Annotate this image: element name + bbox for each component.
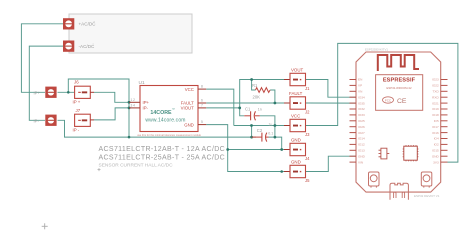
wire VCC row to VCC box J3 <box>234 125 290 127</box>
svg-text:GND: GND <box>432 154 440 158</box>
wire FAULT pin to FAULT box J2 <box>206 102 290 104</box>
svg-text:ESP32DEVKITV1: ESP32DEVKITV1 <box>365 47 388 51</box>
svg-text:J6: J6 <box>74 80 79 85</box>
wire C2 right lead down to GND row <box>269 137 282 149</box>
jack square IP- <box>45 115 56 126</box>
svg-text:www.14core.com: www.14core.com <box>145 117 185 123</box>
svg-text:ACS711ELCTR-12AB-T - 12A AC/DC: ACS711ELCTR-12AB-T - 12A AC/DC <box>99 146 226 153</box>
shield box <box>376 75 423 111</box>
wire VOUT box J1 to ESP32 pin IO34 <box>306 80 356 98</box>
wire IP+ branch up over J6 to U1 vertical <box>68 79 129 137</box>
svg-text:U1: U1 <box>139 80 145 86</box>
svg-text:IP-: IP- <box>143 106 149 111</box>
button BOOT <box>421 172 432 188</box>
svg-text:C2: C2 <box>257 128 263 133</box>
svg-text:ACS711ELCTR-25AB-T - 25A AC/DC: ACS711ELCTR-25AB-T - 25A AC/DC <box>99 154 226 161</box>
pin VCC stub <box>198 88 206 90</box>
ESP32 right pin stubs <box>441 80 448 163</box>
svg-text:VOUT: VOUT <box>291 67 304 72</box>
svg-text:IO17: IO17 <box>432 125 439 129</box>
connector J5 GND <box>284 159 310 183</box>
svg-text:IO23: IO23 <box>432 78 439 82</box>
capacitor C2 <box>252 122 274 141</box>
svg-text:IP+: IP+ <box>143 100 150 105</box>
wire C2 left lead from VCC row <box>252 126 256 138</box>
connector J4 GND <box>284 137 310 161</box>
wire GND row to box J4 <box>228 149 290 151</box>
svg-text:0.1: 0.1 <box>268 131 273 135</box>
svg-text:IO33: IO33 <box>358 113 365 117</box>
svg-text:use this for the minimal toler: use this for the minimal tolerance measu… <box>137 133 201 137</box>
svg-text:VCC: VCC <box>185 87 194 92</box>
svg-text:FAULT: FAULT <box>289 91 303 96</box>
svg-text:IP-: IP- <box>34 118 40 123</box>
wire jack+ to IP+ square <box>21 24 63 93</box>
junction dots <box>67 78 283 173</box>
svg-text:IO14: IO14 <box>358 137 365 141</box>
svg-text:™: ™ <box>172 108 175 112</box>
svg-text:CE: CE <box>397 98 407 105</box>
svg-text:IO18: IO18 <box>432 113 439 117</box>
connector J1 VOUT <box>284 67 310 91</box>
pin IP+ stub <box>129 101 140 103</box>
svg-text:J4: J4 <box>305 156 310 161</box>
ESP32 left pin stubs <box>350 80 357 163</box>
svg-text:IO34: IO34 <box>358 95 365 99</box>
connector J7 <box>73 108 95 133</box>
connector J2 FAULT <box>284 91 310 115</box>
jack square -AC/DC <box>63 41 74 52</box>
svg-text:J5: J5 <box>305 178 310 183</box>
connector J3 VCC <box>284 113 310 137</box>
wire FAULT box J2 to ESP32 pin IO35 <box>306 102 356 104</box>
svg-text:GND: GND <box>184 122 194 127</box>
regulator chip on module <box>379 148 390 159</box>
svg-text:IP+: IP+ <box>34 90 41 95</box>
svg-text:VIOUT: VIOUT <box>181 106 195 111</box>
svg-text:IO13: IO13 <box>358 149 365 153</box>
svg-text:IO2: IO2 <box>434 143 439 147</box>
wire R1 right lead down to FAULT row <box>270 90 275 103</box>
wire IP- square down and around to bottom <box>58 120 252 137</box>
svg-text:3 4: 3 4 <box>131 104 136 108</box>
FCC oval <box>383 97 394 103</box>
svg-text:GND: GND <box>291 137 301 142</box>
svg-text:14CORE: 14CORE <box>150 110 172 116</box>
svg-text:IO35: IO35 <box>358 101 365 105</box>
svg-text:IO26: IO26 <box>358 125 365 129</box>
svg-text:5: 5 <box>201 120 203 124</box>
svg-text:8: 8 <box>201 85 203 89</box>
ESP32 right pin labels <box>432 78 440 165</box>
svg-text:R1: R1 <box>252 83 258 88</box>
svg-text:1 2: 1 2 <box>131 98 136 102</box>
svg-text:IO22: IO22 <box>432 84 439 88</box>
capacitor C1 <box>244 106 261 120</box>
svg-text:IP -: IP - <box>73 128 80 133</box>
svg-text:TXD: TXD <box>433 90 440 94</box>
svg-text:IO16: IO16 <box>432 131 439 135</box>
resistor R1 <box>252 83 270 99</box>
wire C1 right lead down to VCC row <box>260 116 275 137</box>
connector J6 <box>73 80 95 105</box>
svg-text:EN: EN <box>358 78 362 82</box>
svg-text:IO27: IO27 <box>358 131 365 135</box>
svg-text:IO19: IO19 <box>432 107 439 111</box>
wire VOUT: VIOUT pin right, up, to VOUT box J1 <box>206 80 290 108</box>
wire R1 top branch from VOUT row <box>252 80 256 91</box>
svg-text:1u: 1u <box>269 122 273 126</box>
wire J7 right staircase to U1 <box>94 108 129 120</box>
svg-text:IP +: IP + <box>73 100 81 105</box>
wire J6 right to vertical <box>94 92 129 102</box>
frame / info box <box>69 14 192 53</box>
wire GND box J5 to ESP32 GND pin <box>306 156 356 171</box>
pin IP- stub <box>129 107 140 109</box>
svg-text:VCC: VCC <box>291 113 300 118</box>
pin VIOUT stub <box>198 107 206 109</box>
svg-text:J7: J7 <box>76 108 81 113</box>
svg-text:IO5: IO5 <box>434 119 439 123</box>
svg-text:VN: VN <box>358 90 362 94</box>
origin cross bottom left <box>42 223 48 229</box>
svg-text:VP: VP <box>358 84 362 88</box>
svg-text:IO21: IO21 <box>432 101 439 105</box>
svg-text:IO25: IO25 <box>358 119 365 123</box>
wire GND pin down to GND boxes <box>206 125 290 172</box>
wire IP+ square to J6 <box>58 91 75 93</box>
svg-text:3V3: 3V3 <box>433 160 439 164</box>
svg-text:GND: GND <box>291 159 301 164</box>
svg-text:1n: 1n <box>258 107 262 111</box>
button EN <box>369 172 380 188</box>
ESP32 left pin labels <box>358 78 366 165</box>
wire VIOUT down to C1 <box>240 108 245 116</box>
svg-text:SENSOR CURRENT HALL AC/DC: SENSOR CURRENT HALL AC/DC <box>99 163 174 169</box>
svg-text:RXD: RXD <box>432 95 439 99</box>
module body <box>356 52 441 192</box>
svg-text:7: 7 <box>201 104 203 108</box>
svg-text:20K: 20K <box>253 95 261 100</box>
svg-text:ESP32-WROOM-32: ESP32-WROOM-32 <box>386 86 411 90</box>
usb-uart chip on module <box>403 145 419 161</box>
svg-text:VIN: VIN <box>358 160 363 164</box>
jack square +AC/DC <box>63 18 74 29</box>
ESP32 devkit module U2 <box>356 47 441 192</box>
svg-text:C1: C1 <box>245 106 251 111</box>
wire jack- to IP- square <box>29 46 63 120</box>
svg-text:J3: J3 <box>305 132 310 137</box>
svg-text:ESPRESSIF: ESPRESSIF <box>383 78 416 84</box>
jack square IP+ <box>45 87 56 98</box>
svg-text:GND: GND <box>358 154 366 158</box>
svg-text:IO4: IO4 <box>434 137 439 141</box>
svg-text:6: 6 <box>201 99 203 103</box>
wire VCC pin to down-corner <box>206 89 234 125</box>
antenna meander <box>378 55 419 71</box>
svg-text:IO12: IO12 <box>358 143 365 147</box>
svg-text:FCC: FCC <box>385 98 392 102</box>
svg-text:J1: J1 <box>305 86 310 91</box>
usb connector <box>390 183 408 199</box>
pin FAULT stub <box>198 102 206 104</box>
wire VCC box J3 up over module to 3V3 <box>306 43 458 162</box>
pin GND stub <box>198 124 206 126</box>
svg-text:J2: J2 <box>305 109 310 114</box>
svg-text:IO32: IO32 <box>358 107 365 111</box>
svg-text:IO15: IO15 <box>432 149 439 153</box>
svg-text:ESP32 DEVKIT V1: ESP32 DEVKIT V1 <box>414 194 440 198</box>
origin cross of text <box>98 168 101 171</box>
sensor IC U1 ACS711 <box>129 80 206 137</box>
